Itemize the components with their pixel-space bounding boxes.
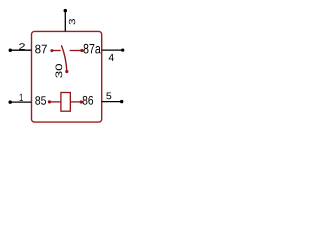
contact 87 label [35,45,47,54]
pin 4 wire [102,49,123,51]
pin 1 terminal dot [8,100,12,104]
contact 87a label [83,44,100,54]
pin 5 terminal dot [120,100,123,103]
contact 87 stub [52,50,61,52]
pin 1 wire [10,101,31,103]
pin 2 label [19,43,25,49]
pin 5 wire [102,101,122,103]
pin 4 terminal dot [121,48,124,51]
pin 3 terminal dot [64,9,68,13]
terminal 30 label [55,64,62,78]
coil 86 stub dot [80,100,83,103]
contact 87a stub [70,50,82,52]
switch lever (common arm from 30) [61,45,66,71]
contact 87 stub dot [50,49,53,52]
relay coil [61,93,70,112]
coil 86 stub [70,101,81,103]
switch pivot dot (terminal 30) [65,70,68,73]
pin 1 label [20,94,23,101]
pin 5 label [106,92,111,99]
pin 3 wire [64,11,66,32]
pin 3 label [69,19,75,24]
coil 86 label [83,96,93,105]
pin 2 terminal dot [9,48,13,52]
pin 4 label [109,54,114,61]
contact 87a stub dot [80,49,83,52]
relay body U1 [32,31,102,122]
pin 2 wire [10,49,31,51]
coil 85 label [35,96,46,104]
coil 85 stub dot [48,100,51,103]
coil 85 stub [49,101,61,103]
